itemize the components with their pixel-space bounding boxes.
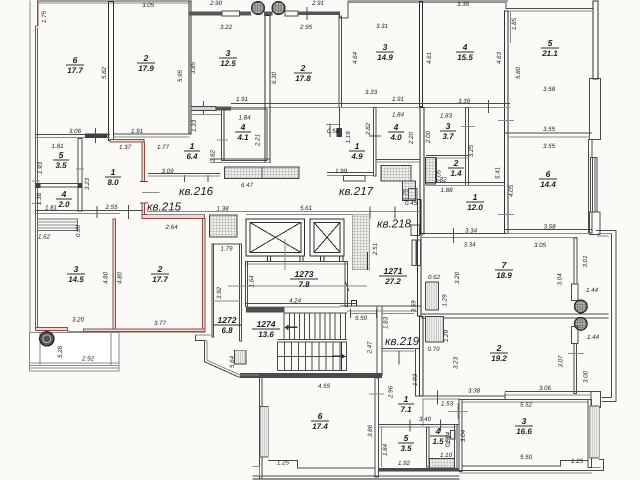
svg-text:3.77: 3.77 bbox=[154, 320, 167, 327]
svg-text:1.83: 1.83 bbox=[383, 316, 390, 329]
svg-text:5.50: 5.50 bbox=[520, 454, 533, 461]
room 14.4 right wall bbox=[588, 140, 592, 234]
svg-text:4.0: 4.0 bbox=[389, 133, 402, 142]
svg-text:4.55: 4.55 bbox=[318, 383, 331, 390]
kv219 upper area 1.83 wall bbox=[382, 312, 414, 314]
svg-text:2.82: 2.82 bbox=[365, 122, 372, 136]
svg-text:7.8: 7.8 bbox=[298, 280, 310, 289]
door tick in 8.0 bottom bbox=[96, 206, 98, 218]
room 1273 top wall bbox=[246, 260, 347, 262]
svg-text:3.34: 3.34 bbox=[465, 228, 478, 235]
svg-text:2: 2 bbox=[157, 264, 163, 274]
svg-text:3.05: 3.05 bbox=[534, 242, 547, 249]
svg-text:1.91: 1.91 bbox=[131, 128, 143, 135]
svg-text:2.96: 2.96 bbox=[388, 385, 395, 399]
bay below window bbox=[590, 212, 601, 235]
svg-text:1.4: 1.4 bbox=[450, 169, 462, 178]
svg-text:5.52: 5.52 bbox=[520, 402, 533, 409]
room 4/4.0 right wall thick bbox=[420, 108, 424, 235]
svg-text:2.95: 2.95 bbox=[299, 24, 313, 31]
svg-text:2.91: 2.91 bbox=[311, 0, 324, 7]
dim line 1273 bbox=[228, 285, 367, 287]
dim line corridor bbox=[212, 300, 240, 302]
svg-text:2: 2 bbox=[143, 53, 149, 63]
wall between 14.9 and 15.5 bbox=[419, 2, 422, 107]
svg-text:1.62: 1.62 bbox=[38, 234, 51, 241]
small square at wall corner bbox=[352, 301, 357, 306]
svg-text:4.63: 4.63 bbox=[496, 51, 503, 64]
svg-text:1.25: 1.25 bbox=[571, 458, 584, 465]
svg-text:1.32: 1.32 bbox=[434, 177, 447, 184]
door sill 4.9 bbox=[344, 176, 366, 182]
svg-text:4.64: 4.64 bbox=[352, 51, 359, 64]
svg-text:3.22: 3.22 bbox=[220, 24, 233, 31]
svg-text:кв.217: кв.217 bbox=[339, 185, 374, 198]
svg-text:3.04: 3.04 bbox=[557, 273, 564, 286]
svg-text:1: 1 bbox=[473, 192, 478, 202]
vent circle 1 bbox=[252, 2, 265, 15]
svg-text:3.58: 3.58 bbox=[543, 224, 556, 231]
dim cross bbox=[448, 410, 468, 412]
svg-text:1.29: 1.29 bbox=[443, 329, 450, 342]
tick bbox=[488, 100, 490, 113]
svg-text:15.5: 15.5 bbox=[457, 53, 473, 62]
svg-text:14.4: 14.4 bbox=[540, 180, 556, 189]
svg-text:4.80: 4.80 bbox=[103, 271, 110, 284]
svg-text:2.00: 2.00 bbox=[425, 130, 432, 144]
mid divider bbox=[278, 339, 348, 341]
svg-text:4: 4 bbox=[462, 42, 468, 52]
svg-text:3.07: 3.07 bbox=[558, 355, 565, 368]
red wall right side x203 bbox=[202, 218, 205, 330]
svg-text:1.10: 1.10 bbox=[440, 452, 453, 459]
wall x417-421 (27.2 | 12.0) bbox=[417, 200, 421, 317]
ticks on x505 wall bbox=[498, 120, 514, 122]
svg-text:0.70: 0.70 bbox=[427, 346, 440, 353]
red jog top of entry bbox=[110, 139, 144, 142]
bottom-right bay step bbox=[592, 460, 604, 471]
svg-text:3.40: 3.40 bbox=[419, 416, 432, 423]
top wall of 14.9/15.5 bbox=[348, 0, 508, 2]
svg-text:6.4: 6.4 bbox=[186, 152, 198, 161]
1273 bottom wall / stairwell top wall bbox=[246, 303, 357, 305]
boiler circle bbox=[40, 332, 54, 346]
wall y173.5-176 bottom of 6.4 room bbox=[148, 173, 221, 175]
svg-text:5: 5 bbox=[59, 150, 64, 160]
door frame lower loggia bbox=[571, 327, 577, 344]
svg-text:3.05: 3.05 bbox=[142, 2, 155, 9]
svg-text:3: 3 bbox=[446, 121, 451, 131]
svg-text:1.81: 1.81 bbox=[45, 205, 57, 212]
room 16.6 bottom wall with step bbox=[462, 460, 588, 465]
bottom wall of 4.0 bbox=[376, 158, 420, 160]
right outer wall double bbox=[610, 233, 612, 397]
svg-text:3.34: 3.34 bbox=[463, 242, 476, 249]
wall between 21.1 and 14.4 bbox=[505, 132, 592, 134]
svg-text:3.23: 3.23 bbox=[453, 356, 460, 369]
5.50 dim line in landing bbox=[351, 312, 377, 314]
wall under 5/3.5 bbox=[36, 184, 82, 188]
svg-text:2.21: 2.21 bbox=[255, 134, 262, 147]
rooms 3.5/1.5 top wall bbox=[379, 423, 460, 425]
svg-text:6: 6 bbox=[73, 55, 78, 65]
room 2/1.4 top wall bbox=[426, 154, 469, 156]
tick on 5/3.5 right wall bbox=[76, 168, 84, 170]
wall seg between circles bbox=[264, 12, 273, 16]
svg-text:2.64: 2.64 bbox=[164, 224, 178, 231]
svg-text:3.20: 3.20 bbox=[454, 271, 461, 284]
svg-text:5.80: 5.80 bbox=[515, 66, 522, 79]
red wall right of entry hall x142 bbox=[142, 142, 145, 182]
room 3.5 left wall lower bbox=[380, 427, 382, 467]
svg-text:14.5: 14.5 bbox=[68, 275, 84, 284]
svg-text:1.84: 1.84 bbox=[382, 443, 389, 456]
kv219 entry sill line bbox=[383, 347, 415, 349]
svg-text:1.83: 1.83 bbox=[440, 113, 453, 120]
svg-text:1.38: 1.38 bbox=[36, 192, 43, 205]
vent circle 2 bbox=[272, 2, 285, 15]
svg-text:кв.215: кв.215 bbox=[147, 201, 182, 214]
svg-text:6.47: 6.47 bbox=[241, 182, 254, 189]
red wall x142 lower part bbox=[142, 203, 145, 216]
svg-text:2.51: 2.51 bbox=[372, 243, 379, 256]
svg-text:17.9: 17.9 bbox=[138, 64, 154, 73]
svg-text:3: 3 bbox=[522, 416, 527, 426]
wall bottom of room 17.9 / corridor 216 top (gray double) bbox=[113, 133, 190, 135]
svg-text:1.44: 1.44 bbox=[587, 334, 600, 341]
svg-text:2.92: 2.92 bbox=[81, 356, 95, 363]
elevator 1 feet bbox=[266, 256, 268, 262]
svg-text:4.05: 4.05 bbox=[508, 184, 515, 197]
svg-text:4: 4 bbox=[393, 122, 399, 132]
stair enclosure bbox=[284, 312, 347, 314]
svg-text:3.31: 3.31 bbox=[376, 23, 388, 30]
svg-text:2: 2 bbox=[496, 343, 502, 353]
window sill 12.5 top bbox=[222, 11, 240, 16]
svg-text:4.24: 4.24 bbox=[289, 298, 302, 305]
svg-text:3.09: 3.09 bbox=[161, 168, 174, 175]
wall x265-270 thick (right of 4.1) bbox=[265, 15, 270, 162]
bottom wall of 12.0 (y233-238) bbox=[421, 233, 577, 235]
svg-text:5.41: 5.41 bbox=[495, 167, 502, 179]
svg-text:4.80: 4.80 bbox=[117, 271, 124, 284]
room 16.6 top wall bbox=[460, 398, 590, 400]
svg-text:1: 1 bbox=[111, 167, 116, 177]
svg-text:1.91: 1.91 bbox=[392, 96, 404, 103]
svg-text:4: 4 bbox=[240, 122, 246, 132]
svg-text:6.8: 6.8 bbox=[221, 326, 233, 335]
room 17.4 left wall + window bbox=[259, 375, 262, 479]
svg-text:3.7: 3.7 bbox=[442, 132, 454, 141]
svg-text:3.58: 3.58 bbox=[543, 86, 556, 93]
svg-text:1.75: 1.75 bbox=[41, 10, 48, 23]
svg-text:3.85: 3.85 bbox=[190, 61, 197, 74]
thin line x423 y399-426 bbox=[422, 399, 424, 426]
svg-text:1.33: 1.33 bbox=[191, 119, 198, 132]
svg-text:1: 1 bbox=[355, 141, 360, 151]
svg-text:7.1: 7.1 bbox=[400, 405, 412, 414]
tick bbox=[95, 128, 97, 143]
svg-text:3.38: 3.38 bbox=[468, 388, 481, 395]
svg-text:5.28: 5.28 bbox=[57, 345, 64, 358]
svg-text:1: 1 bbox=[404, 394, 409, 404]
svg-text:2: 2 bbox=[453, 158, 459, 168]
room 2/1.4 bottom wall bbox=[426, 181, 506, 183]
entry sill hatch block bbox=[209, 215, 237, 237]
room 1/4.9 left wall + pier bbox=[339, 108, 341, 138]
step down to 16.6 top wall bbox=[504, 392, 506, 399]
right outer wall top (double) bbox=[593, 1, 598, 79]
wall 15.5 right / 21.1 left top step bbox=[506, 3, 593, 9]
svg-text:3.92: 3.92 bbox=[216, 286, 223, 299]
bottom wall of 12.5 bbox=[191, 106, 216, 110]
svg-text:1.99: 1.99 bbox=[335, 168, 348, 175]
svg-text:4.9: 4.9 bbox=[350, 152, 363, 161]
wall under room 1/8.0 and 4/2.0 (internal) bbox=[36, 210, 143, 212]
svg-text:1.37: 1.37 bbox=[119, 144, 132, 151]
room 16.6 left wall bbox=[459, 399, 462, 471]
svg-text:5.82: 5.82 bbox=[101, 66, 108, 79]
wall x419-423 (19.2 left) bbox=[420, 316, 424, 395]
svg-text:3.23: 3.23 bbox=[84, 177, 91, 190]
svg-text:1.84: 1.84 bbox=[392, 112, 405, 119]
door sill hatch corridor bottom bbox=[235, 350, 246, 364]
wall x574.5 lower bbox=[574, 344, 576, 394]
kv216/217 door stubs on corridor top wall bbox=[369, 207, 371, 219]
svg-text:1.19: 1.19 bbox=[345, 131, 352, 144]
svg-text:17.7: 17.7 bbox=[67, 66, 83, 75]
wall x375-378 (17.4 | 7.1) bbox=[375, 378, 378, 477]
svg-text:1.81: 1.81 bbox=[51, 143, 63, 150]
svg-text:6: 6 bbox=[546, 169, 551, 179]
bay corner bottom-right bbox=[602, 397, 612, 399]
room 17.4 top-left wall piece bbox=[239, 376, 262, 378]
vent circle upper bbox=[575, 300, 588, 313]
svg-text:5.61: 5.61 bbox=[300, 205, 312, 212]
wall between 14.5 and 17.7 red bbox=[113, 219, 116, 329]
svg-text:1.91: 1.91 bbox=[236, 96, 248, 103]
svg-text:1: 1 bbox=[190, 141, 195, 151]
vent circle lower bbox=[575, 318, 588, 331]
svg-text:1273: 1273 bbox=[295, 269, 314, 279]
window bay right top bbox=[590, 79, 601, 140]
svg-text:3: 3 bbox=[74, 264, 79, 274]
svg-text:1.85: 1.85 bbox=[511, 17, 518, 30]
svg-text:3.06: 3.06 bbox=[539, 385, 552, 392]
wall between 17.8 and 14.9 bbox=[338, 12, 340, 107]
pier dark room17.7 bottom bbox=[85, 134, 108, 139]
wall y395-399 left part (422-505) bbox=[422, 395, 505, 397]
svg-text:17.7: 17.7 bbox=[152, 275, 168, 284]
diagonal chamfer wall bottom-left bbox=[196, 340, 260, 377]
svg-text:1271: 1271 bbox=[384, 266, 403, 276]
svg-text:1.38: 1.38 bbox=[216, 206, 229, 213]
svg-text:12.5: 12.5 bbox=[220, 59, 236, 68]
wall x505 vertical (15.5|21.1 , 12.0|14.4) bbox=[504, 11, 507, 234]
svg-text:8.0: 8.0 bbox=[107, 178, 119, 187]
bottom wall band rooms 3.5/1.5 bbox=[379, 468, 460, 472]
balcony hatch below room 4/2.0 bbox=[38, 219, 78, 231]
svg-text:0.58: 0.58 bbox=[327, 128, 340, 135]
step corner at x340-348 bbox=[340, 1, 348, 18]
svg-text:1.79: 1.79 bbox=[220, 246, 233, 253]
svg-text:2.0: 2.0 bbox=[57, 200, 70, 209]
svg-text:5: 5 bbox=[404, 433, 409, 443]
svg-text:1.5: 1.5 bbox=[432, 437, 444, 446]
svg-text:2.47: 2.47 bbox=[367, 341, 374, 355]
1273 right wall bbox=[345, 261, 347, 306]
red bottom wall of 14.5/17.7 bbox=[36, 328, 68, 331]
svg-text:3: 3 bbox=[226, 48, 231, 58]
svg-text:5.95: 5.95 bbox=[177, 69, 184, 82]
svg-text:4.61: 4.61 bbox=[426, 52, 433, 64]
svg-text:1.53: 1.53 bbox=[441, 401, 454, 408]
upper flight treads bbox=[284, 313, 345, 340]
corridor left walls (3.92) bbox=[212, 244, 214, 337]
svg-text:1272: 1272 bbox=[218, 315, 237, 325]
kv216 door stubs on corridor wall bbox=[147, 213, 205, 215]
svg-text:0.45: 0.45 bbox=[405, 200, 418, 207]
tall vent hatch strip bbox=[352, 215, 370, 270]
windows in that wall bbox=[412, 240, 416, 266]
svg-text:3.59: 3.59 bbox=[411, 300, 418, 313]
wall between 5/3.5 and 1/8.0 bbox=[78, 139, 82, 212]
svg-text:5.50: 5.50 bbox=[355, 315, 368, 322]
svg-text:4.1: 4.1 bbox=[236, 133, 249, 142]
room 1.5 right wall bbox=[455, 424, 458, 470]
room 4/4.1 box bbox=[222, 109, 268, 160]
svg-text:16.6: 16.6 bbox=[516, 427, 532, 436]
svg-text:1.44: 1.44 bbox=[586, 287, 599, 294]
lower flight treads bbox=[278, 342, 347, 371]
svg-text:6: 6 bbox=[318, 411, 323, 421]
long wall y104-108 across (bottom of 17.8,14.9; top of 4.1,4.9,4.0,3.7) bbox=[231, 103, 510, 105]
svg-text:3.39: 3.39 bbox=[458, 98, 471, 105]
wall x415-419.5 entry right bbox=[415, 348, 419, 396]
svg-text:4: 4 bbox=[435, 426, 441, 436]
svg-text:17.8: 17.8 bbox=[295, 74, 311, 83]
stair arrows bbox=[285, 324, 298, 330]
door frame upper loggia bbox=[571, 284, 577, 301]
window sill right of circle2 bbox=[285, 11, 298, 16]
tick 3.07 bbox=[568, 353, 584, 355]
svg-text:5.64: 5.64 bbox=[229, 355, 236, 368]
wall bottom of room 17.7 bbox=[36, 134, 110, 136]
svg-text:кв.219: кв.219 bbox=[385, 335, 420, 348]
door jamb stubs bbox=[140, 180, 148, 182]
elevator 1 bbox=[246, 219, 304, 256]
svg-text:3.5: 3.5 bbox=[400, 444, 412, 453]
wall y392-395 bottom of 19.2 right part bbox=[505, 391, 595, 393]
svg-text:3.01: 3.01 bbox=[582, 255, 589, 267]
svg-text:1.84: 1.84 bbox=[238, 115, 251, 122]
tick left wall bbox=[32, 180, 40, 182]
divider 3.5|1.5 bbox=[427, 427, 429, 467]
svg-text:17.4: 17.4 bbox=[312, 422, 328, 431]
svg-text:1.93: 1.93 bbox=[412, 373, 419, 386]
svg-text:3.33: 3.33 bbox=[365, 89, 378, 96]
svg-text:3.5: 3.5 bbox=[55, 161, 67, 170]
svg-text:3.06: 3.06 bbox=[69, 128, 82, 135]
svg-text:1.64: 1.64 bbox=[249, 275, 256, 288]
wall y306-311 from x340 to 425 (27.2 bottom) bbox=[340, 305, 421, 307]
left outer balcony line bbox=[29, 1, 31, 372]
wall between 4.9 and 4.0 bbox=[373, 108, 376, 177]
wall between 17.9 and 12.5 bbox=[189, 1, 191, 134]
svg-text:2: 2 bbox=[300, 63, 306, 73]
svg-text:1.29: 1.29 bbox=[442, 294, 449, 307]
bay corner steps top-right of mid section bbox=[596, 229, 616, 231]
bottom wall of 4.1 bbox=[210, 158, 270, 160]
window right of 14.4 bbox=[590, 158, 597, 213]
svg-text:3.00: 3.00 bbox=[583, 370, 590, 383]
vent hatch above divide (in wall 18.9) bbox=[426, 282, 439, 310]
corridor small top walls bbox=[212, 243, 242, 245]
svg-text:0.62: 0.62 bbox=[428, 274, 441, 281]
stairwell bottom wall bbox=[240, 373, 382, 378]
tick 1.53 bbox=[437, 391, 439, 405]
svg-text:5: 5 bbox=[548, 38, 553, 48]
svg-text:1.88: 1.88 bbox=[440, 187, 453, 194]
corridor bottom box (1272 area SW corner) bbox=[246, 307, 285, 312]
svg-text:1274: 1274 bbox=[257, 319, 276, 329]
window band 6.47 bbox=[225, 167, 300, 179]
hatch at bottom of 1.5 bbox=[430, 459, 455, 469]
bottom wall of 14.4 bbox=[505, 229, 592, 231]
vent hatch left of 1.4 bbox=[426, 158, 436, 185]
svg-text:3.86: 3.86 bbox=[367, 424, 374, 437]
L hatch kv217 corridor bbox=[381, 165, 411, 181]
svg-text:2.90: 2.90 bbox=[209, 0, 223, 7]
svg-text:14.9: 14.9 bbox=[377, 53, 393, 62]
bottom wall of 4.9 bbox=[327, 171, 373, 173]
svg-text:19.2: 19.2 bbox=[491, 354, 507, 363]
svg-text:кв.218: кв.218 bbox=[377, 218, 412, 231]
stair landing right wall x377-382 bbox=[377, 306, 382, 375]
room 12.5 top wall thick bbox=[189, 12, 222, 16]
svg-text:3.25: 3.25 bbox=[468, 144, 475, 157]
svg-text:18.9: 18.9 bbox=[496, 271, 512, 280]
svg-text:27.2: 27.2 bbox=[384, 277, 401, 286]
building bottom edge under 17.4 and 3.5 bbox=[253, 475, 460, 477]
door sill 12.0 left bbox=[408, 188, 417, 199]
red jog above rooms 14.5/17.7 bbox=[142, 215, 204, 219]
room 3/3.7 right wall bbox=[465, 108, 468, 186]
wall top outer thin bbox=[37, 0, 190, 2]
wall between rooms 17.7 and 17.9 (double black) bbox=[109, 2, 114, 141]
wall left outer red bbox=[37, 2, 39, 27]
svg-text:1.93: 1.93 bbox=[37, 161, 44, 174]
svg-text:кв.216: кв.216 bbox=[179, 185, 214, 198]
svg-text:0.90: 0.90 bbox=[445, 434, 452, 447]
svg-text:3: 3 bbox=[383, 42, 388, 52]
svg-text:12.0: 12.0 bbox=[467, 203, 483, 212]
svg-text:3.36: 3.36 bbox=[457, 1, 470, 8]
svg-text:3.55: 3.55 bbox=[543, 143, 556, 150]
vent hatch below divide bbox=[426, 317, 444, 343]
svg-text:1.77: 1.77 bbox=[157, 144, 170, 151]
room 2/1.4 left wall bbox=[436, 158, 438, 182]
wall x574-577 (18.9 | loggia) upper bbox=[574, 238, 577, 284]
svg-text:1.92: 1.92 bbox=[398, 460, 411, 467]
dim drop line from elevator1 bbox=[284, 239, 286, 270]
room 16.6 right wall + window bbox=[588, 399, 591, 467]
svg-text:4: 4 bbox=[61, 189, 67, 199]
horizontal divide band y313-318 bbox=[421, 313, 609, 315]
door sill on 1.5 right wall bbox=[450, 431, 455, 439]
svg-text:0.60: 0.60 bbox=[75, 224, 82, 237]
corridor top wall y211.5-214.5 continues right bbox=[209, 210, 420, 212]
